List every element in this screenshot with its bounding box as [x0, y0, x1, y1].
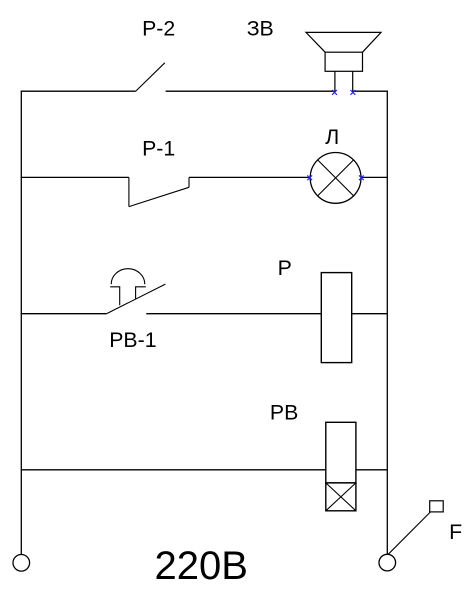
relay coil P [321, 273, 351, 363]
svg-text:Р-2: Р-2 [142, 16, 175, 40]
node mark lamp right pin [359, 175, 364, 180]
node mark lamp left pin [307, 175, 312, 180]
wire left vertical bus [20, 91, 22, 554]
contact P-1 riser [188, 177, 190, 187]
node mark bell left pin [332, 90, 337, 95]
svg-text:Л: Л [325, 125, 339, 149]
wire relay rung left segment [21, 313, 106, 315]
wire lamp rung right segment [361, 176, 388, 178]
wire lamp rung middle segment [189, 176, 310, 178]
contact PV-1 blade [106, 284, 165, 314]
terminal left circle [13, 555, 30, 572]
lamp L cross [318, 160, 354, 196]
switch P-2 blade [135, 63, 164, 92]
wire relay rung right segment [146, 313, 321, 315]
contact P-1 drop [128, 177, 130, 206]
contact PV-1 delay dome arc [111, 269, 145, 285]
svg-text:F: F [449, 520, 462, 544]
timer coil PV cross [326, 483, 356, 511]
bell ZV horn [306, 32, 381, 52]
switch F lever [388, 512, 430, 554]
contact PV-1 plunger [110, 287, 146, 306]
node mark bell right pin [351, 90, 356, 95]
wire relay rung to right bus [352, 313, 388, 315]
lamp L circle [310, 153, 361, 204]
wire lamp rung left segment [21, 176, 129, 178]
bell ZV lead left [334, 71, 336, 91]
svg-text:Р-1: Р-1 [142, 137, 175, 161]
wire top rung right segment [353, 90, 388, 92]
bell ZV lead right [352, 71, 354, 91]
svg-text:Р: Р [278, 256, 292, 280]
svg-text:РВ: РВ [270, 401, 298, 425]
bell ZV body box [325, 52, 362, 71]
svg-text:РВ-1: РВ-1 [109, 328, 156, 352]
svg-text:220В: 220В [155, 544, 248, 588]
wire timer rung left segment [21, 469, 326, 471]
wire right vertical bus [386, 91, 388, 554]
timer coil PV lower box [326, 483, 356, 511]
wire top rung middle segment [166, 90, 335, 92]
svg-text:ЗВ: ЗВ [247, 17, 274, 41]
timer coil PV body [326, 422, 356, 483]
contact P-1 blade [129, 187, 189, 206]
wire top rung left segment [21, 90, 136, 92]
wire timer rung right segment [356, 469, 388, 471]
terminal right circle [379, 554, 396, 571]
switch F handle square [430, 501, 444, 512]
